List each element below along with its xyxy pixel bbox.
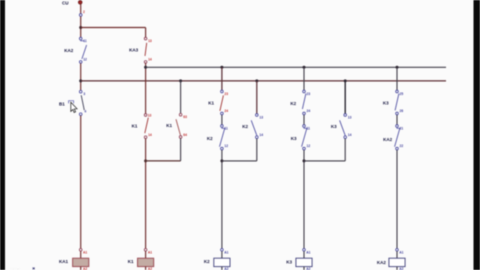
coil K2: [204, 258, 230, 266]
svg-text:24: 24: [307, 109, 311, 113]
wire terminal 2 to node N1: [80, 16, 82, 37]
wire branch join column 2b: [146, 160, 181, 162]
svg-text:K3: K3: [331, 124, 337, 129]
node N11 junction on lower bus: [344, 79, 347, 82]
svg-text:A1: A1: [83, 250, 87, 254]
contact K2b (13-14) mirrored: [242, 114, 263, 139]
svg-text:K2: K2: [204, 259, 210, 264]
wire A1 to coil KA1: [80, 251, 82, 258]
svg-text:B1: B1: [59, 101, 65, 106]
svg-text:23: 23: [307, 92, 311, 96]
svg-text:12: 12: [83, 58, 87, 62]
coil K1 (energized): [128, 258, 154, 266]
terminal A1 KA2: [396, 249, 404, 255]
terminal 2: [79, 10, 85, 16]
status bar close mark: [10, 267, 35, 270]
wire branch join column 4b: [304, 160, 345, 162]
svg-text:A1: A1: [399, 250, 403, 254]
wire K2b down to join: [256, 139, 258, 161]
svg-text:13: 13: [348, 115, 352, 119]
contact K1c (23-24) column 3: [208, 90, 228, 115]
svg-text:K2: K2: [242, 124, 248, 129]
svg-text:14: 14: [348, 133, 352, 137]
svg-text:12: 12: [307, 144, 311, 148]
wire KA2 to node N2: [80, 63, 82, 90]
wire K3 contact down to coil K3: [303, 150, 305, 249]
wire coil K1 A2 stub: [146, 267, 153, 270]
svg-text:13: 13: [148, 39, 152, 43]
wire coil K3 A2 stub: [304, 267, 311, 270]
svg-text:A1: A1: [224, 250, 228, 254]
svg-text:K1: K1: [166, 123, 172, 128]
node N9 junction on upper bus: [303, 66, 306, 69]
svg-text:25: 25: [400, 92, 404, 96]
svg-text:K2: K2: [290, 101, 296, 106]
contact K3 (NC 11-12) column 4: [291, 125, 311, 150]
terminal A1 K1: [144, 249, 152, 255]
svg-text:4: 4: [84, 110, 86, 114]
wire A1 to coil KA2: [396, 251, 398, 258]
wire N6 down to contact K1c: [221, 67, 223, 90]
lower bus wire y81: [81, 80, 446, 82]
contact K2c (23-24) column 4: [290, 90, 310, 115]
svg-text:KA2: KA2: [383, 137, 392, 142]
node N12 junction on upper bus: [396, 66, 399, 69]
svg-text:12: 12: [224, 144, 228, 148]
svg-text:KA1: KA1: [59, 259, 68, 264]
svg-text:K1: K1: [132, 124, 138, 129]
svg-text:K3: K3: [286, 260, 292, 265]
svg-text:64: 64: [183, 133, 187, 137]
wire K1b down to join: [180, 138, 182, 161]
node N6 junction on upper bus: [220, 66, 223, 69]
node N1 junction: [79, 26, 82, 29]
svg-text:KA2: KA2: [64, 48, 73, 53]
svg-text:2: 2: [83, 10, 85, 14]
wire A1 to coil K2: [221, 251, 223, 258]
wire between contacts column 5: [396, 115, 398, 125]
wire branch join column 3b: [222, 160, 257, 162]
svg-text:13: 13: [259, 115, 263, 119]
node N3 junction (start of upper bus): [144, 66, 147, 69]
svg-text:A1: A1: [306, 250, 310, 254]
node N7 junction: [220, 159, 223, 162]
wire coil KA1 A2 stub: [81, 267, 88, 270]
node N4 junction: [144, 159, 147, 162]
left black bar: [0, 0, 5, 270]
node N8 junction on lower bus: [255, 79, 258, 82]
svg-text:3: 3: [83, 92, 85, 96]
wire KA3 to node N3 and down: [145, 63, 147, 113]
wire N8 down to contact K2b: [256, 81, 258, 114]
mouse cursor: [71, 102, 77, 112]
upper bus wire y67: [146, 66, 446, 68]
wire A1 to coil K1: [145, 251, 147, 258]
wire N9 down to contact K2c: [303, 67, 305, 90]
wire coil K2 A2 stub: [222, 267, 229, 270]
wire N5 down to contact K1b: [180, 81, 182, 113]
wire node N1 to KA3 column: [81, 27, 146, 29]
contact K1b (63-64) mirrored: [166, 113, 187, 138]
svg-text:K1: K1: [128, 259, 134, 264]
svg-text:22: 22: [400, 144, 404, 148]
contact K3c (25-26) column 5: [383, 90, 403, 115]
wire K1 to node N4: [145, 139, 147, 249]
coil K3: [286, 258, 312, 266]
svg-text:13: 13: [148, 113, 152, 117]
svg-text:23: 23: [224, 92, 228, 96]
svg-text:14: 14: [148, 133, 152, 137]
svg-text:CU: CU: [62, 0, 69, 5]
svg-text:14: 14: [148, 58, 152, 62]
contact K3b (13-14) mirrored: [331, 114, 352, 139]
wire N11 down to contact K3b (thick): [344, 81, 346, 114]
node N5 junction on lower bus: [179, 79, 182, 82]
wire between contacts column 4: [303, 115, 305, 125]
svg-text:K2: K2: [207, 136, 213, 141]
coil KA2: [377, 258, 405, 266]
wire N12 down to contact K3c: [396, 67, 398, 90]
supply node CU: [62, 0, 82, 5]
svg-text:26: 26: [400, 109, 404, 113]
wire K2 contact down to coil K2: [221, 150, 223, 249]
wire CU to terminal 2: [80, 4, 82, 14]
right black bar: [474, 0, 480, 270]
contact KA3 (13-14) column 2: [129, 28, 152, 64]
node N2 junction (start of lower bus): [79, 79, 82, 82]
svg-text:KA2: KA2: [377, 260, 386, 265]
wire coil KA2 A2 stub: [397, 267, 404, 270]
terminal A1 KA1: [79, 249, 87, 255]
wire A1 to coil K3: [303, 251, 305, 258]
contact K2 (NC 11-12) column 3: [207, 125, 228, 150]
terminal A1 K2: [221, 249, 229, 255]
contact KA2 (NC 11-12): [64, 37, 87, 63]
svg-text:63: 63: [183, 115, 187, 119]
svg-text:24: 24: [224, 109, 228, 113]
contact K1 (13-14) column 2: [132, 113, 152, 138]
wire B1 to coil KA1: [80, 116, 82, 249]
wire K3b down to join: [344, 139, 346, 161]
contact KA2b (NC 21-22) column 5: [383, 125, 403, 150]
svg-text:14: 14: [259, 133, 263, 137]
coil KA1 (energized): [59, 258, 89, 266]
svg-text:A1: A1: [148, 250, 152, 254]
wire KA2b down to coil KA2: [396, 150, 398, 249]
svg-text:KA3: KA3: [129, 47, 138, 52]
node N10 junction: [303, 159, 306, 162]
svg-text:K3: K3: [383, 101, 389, 106]
svg-text:K1: K1: [208, 100, 214, 105]
terminal A1 K3: [303, 249, 311, 255]
wire between contacts column 3: [221, 115, 223, 125]
pushbutton B1 (NO 3-4): [59, 90, 86, 115]
svg-text:K3: K3: [291, 136, 297, 141]
